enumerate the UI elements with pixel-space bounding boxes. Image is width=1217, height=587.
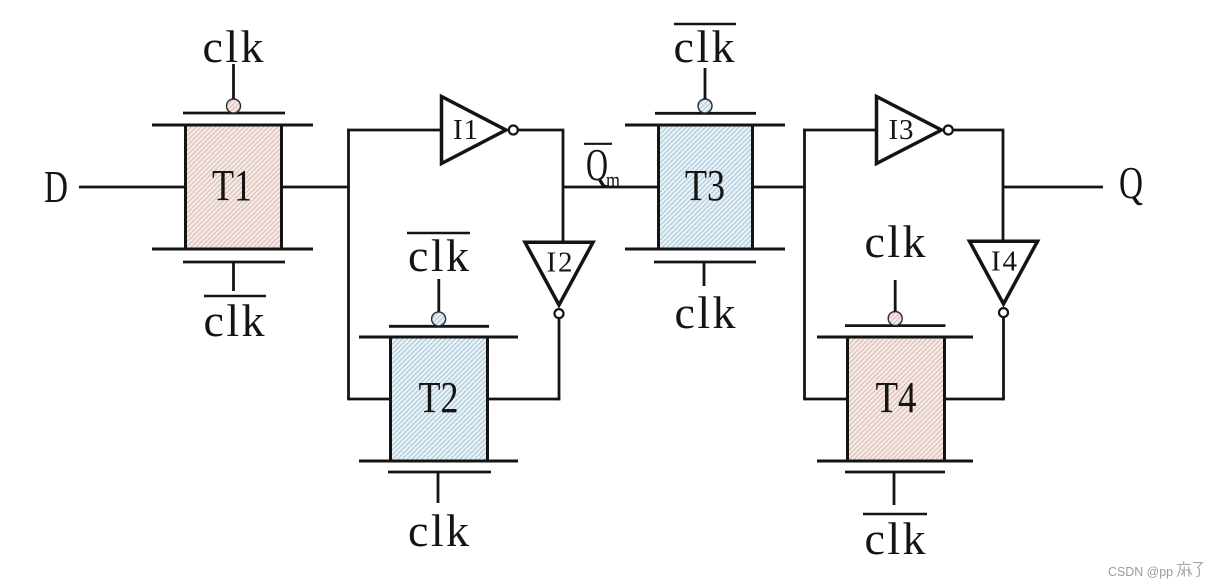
svg-text:clk: clk — [675, 287, 736, 338]
T4 gate bubble — [888, 312, 902, 326]
label clk (T3 bottom) — [675, 287, 736, 338]
svg-text:Q: Q — [1119, 157, 1143, 208]
T4 top gate plate — [845, 324, 946, 327]
inverter I1 — [442, 97, 507, 164]
svg-text:D: D — [44, 161, 68, 212]
svg-text:clk: clk — [865, 513, 926, 564]
svg-text:clk: clk — [408, 230, 469, 281]
wire branch to T2 input — [348, 398, 390, 401]
label clk-bar (T1 bottom) — [204, 295, 267, 346]
node Q label — [1119, 157, 1143, 208]
node D label — [44, 161, 68, 212]
wire T3 bottom plate down — [703, 263, 706, 286]
wire clkbar to T3 bubble — [704, 68, 707, 99]
svg-text:T2: T2 — [419, 373, 459, 422]
wire I2 bubble down — [558, 319, 561, 401]
wire branch vertical (stage 2) — [803, 129, 806, 401]
T3 bottom gate plate — [654, 261, 756, 264]
wire branch to I1 input — [347, 129, 441, 132]
T2 top gate plate — [389, 325, 489, 328]
wire I1 bubble to corner — [517, 129, 564, 132]
svg-text:clk: clk — [203, 21, 264, 72]
svg-text:Q: Q — [586, 140, 608, 190]
T3 gate bubble — [698, 99, 712, 113]
wire node Q — [1003, 186, 1103, 189]
transmission gate T2 — [359, 336, 518, 463]
svg-text:T1: T1 — [212, 161, 252, 210]
svg-text:I2: I2 — [547, 247, 573, 279]
wire clk to T4 bubble — [894, 280, 897, 311]
label clk-bar (T2 top) — [407, 230, 470, 281]
wire T2 output to I2 — [489, 398, 560, 401]
inverter I3 — [877, 97, 942, 164]
svg-text:clk: clk — [674, 21, 735, 72]
watermark glyph "ma" — [1177, 562, 1191, 577]
svg-text:T3: T3 — [685, 161, 725, 210]
inverter I2 — [525, 242, 593, 305]
T1 top gate plate — [183, 112, 285, 115]
svg-text:I4: I4 — [991, 246, 1018, 278]
transmission gate T3 — [625, 124, 785, 251]
wire T4 output to I4 — [946, 398, 1004, 401]
label clk (T1 top) — [203, 21, 264, 72]
T4 bottom gate plate — [845, 471, 945, 474]
watermark glyph "le" — [1194, 563, 1203, 577]
transmission gate T1 — [152, 124, 313, 251]
label clk (T2 bottom) — [408, 505, 469, 556]
svg-text:I1: I1 — [453, 114, 478, 146]
svg-text:clk: clk — [865, 216, 926, 267]
wire branch2 to I3 input — [803, 129, 876, 132]
node Qm label — [584, 140, 620, 194]
wire T4 bottom plate down — [893, 473, 896, 505]
I3 output bubble — [944, 126, 953, 135]
wire T3 output to branch2 — [754, 186, 806, 189]
I4 output bubble — [999, 308, 1008, 317]
svg-text:CSDN @pp: CSDN @pp — [1108, 564, 1173, 579]
inverter I4 — [970, 241, 1038, 304]
wire T1 output to branch — [283, 186, 350, 189]
wire clkbar to T2 bubble — [437, 279, 440, 312]
svg-text:T4: T4 — [876, 373, 917, 422]
label clk-bar (T3 top) — [674, 21, 737, 72]
I2 output bubble — [555, 309, 564, 318]
T1 gate bubble — [227, 99, 241, 113]
wire D to T1 — [79, 186, 185, 189]
svg-text:m: m — [606, 168, 620, 194]
wire node Qm to T3 — [563, 186, 658, 189]
label clk-bar (T4 bottom) — [863, 513, 927, 564]
I1 output bubble — [509, 126, 518, 135]
T2 bottom gate plate — [388, 471, 491, 474]
wire T1 bottom plate to clkbar label — [232, 263, 235, 291]
T3 top gate plate — [655, 112, 756, 115]
wire vertical I1 output down to I2 input — [562, 130, 565, 242]
wire vertical I3 output down to I4 input — [1002, 130, 1005, 241]
wire branch vertical (stage 1) — [347, 129, 350, 401]
svg-text:I3: I3 — [889, 114, 914, 146]
wire T2 bottom plate down — [437, 473, 440, 503]
svg-text:clk: clk — [204, 295, 265, 346]
watermark CSDN @pp (text) — [1108, 564, 1173, 579]
label clk (T4 top) — [865, 216, 926, 267]
wire clk to T1 bubble — [232, 64, 235, 99]
wire branch2 to T4 input — [804, 398, 847, 401]
wire I3 bubble to corner — [952, 129, 1004, 132]
T2 gate bubble — [432, 312, 446, 326]
svg-text:clk: clk — [408, 505, 469, 556]
transmission gate T4 — [817, 336, 973, 463]
T1 bottom gate plate — [183, 261, 285, 264]
wire I4 bubble down — [1002, 318, 1005, 401]
